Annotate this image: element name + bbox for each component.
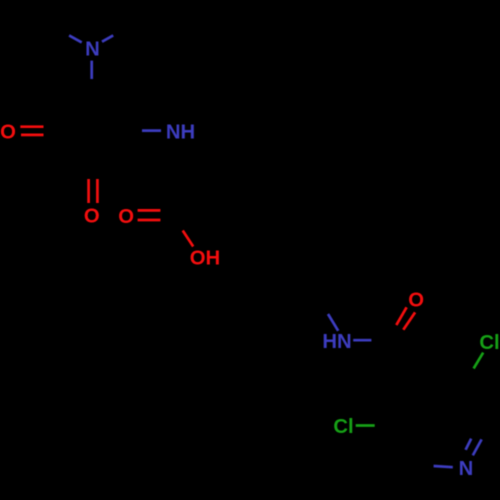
amideC=O double bond (O half, two lines) [396,307,406,325]
C2=O double bond (O half, two lines) [20,125,43,128]
bond Ca-OH (O half) [183,231,194,247]
bond chainC-N (N half) [328,314,338,331]
C1=O double bond (O half, two lines) [87,179,90,203]
svg-text:NH: NH [166,122,195,144]
svg-text:O: O [84,206,100,228]
svg-text:Cl: Cl [479,332,499,354]
bond N-amideC (N half) [353,339,371,342]
svg-text:O: O [0,122,16,144]
Ca=O double bond (O half, two lines) [138,209,161,212]
svg-text:N: N [459,458,474,480]
svg-text:Cl: Cl [333,416,353,438]
bond Cl-ringC (Cl half) [356,424,375,427]
svg-text:O: O [118,206,134,228]
ring C=N double bond (N half, two lines) [466,439,472,450]
bond N-CH3 right (N half) [102,35,113,41]
svg-text:HN: HN [322,331,351,353]
bond N-C3 vertical (N half) [90,61,93,79]
svg-text:N: N [85,39,100,61]
bond N-CH3 left (N half) [69,35,82,42]
svg-text:O: O [408,290,424,312]
bond ringC-Cl (Cl half) [474,353,484,369]
bond C4-NH (N half) [142,129,161,132]
bond ringC-N (N half) [434,466,453,467]
svg-text:OH: OH [190,248,220,270]
